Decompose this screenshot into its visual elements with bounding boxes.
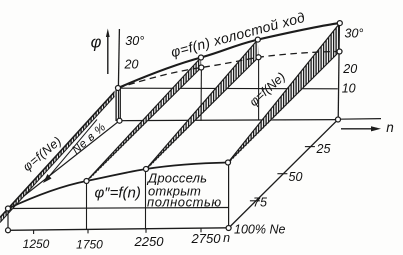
node axis bottom-left <box>6 228 11 233</box>
right scale line <box>338 23 339 119</box>
n axis bottom <box>8 228 229 231</box>
tick 2750 <box>200 228 202 232</box>
node full-throttle right <box>226 160 231 165</box>
strip B wedge (phi=f(Ne) wall at n=2250) <box>87 57 202 182</box>
strip D wedge <box>228 23 340 163</box>
svg-text:полностью: полностью <box>147 195 222 210</box>
svg-text:n: n <box>386 120 394 135</box>
Ne axis tick 25 <box>305 146 315 148</box>
tick 1750 <box>87 229 89 233</box>
node idle n=2250 <box>199 55 204 60</box>
left scale line <box>118 29 119 87</box>
node full-throttle 1750 <box>84 179 89 184</box>
svg-text:1250: 1250 <box>23 237 50 251</box>
Ne axis tick 50 <box>277 173 287 175</box>
svg-text:2250: 2250 <box>134 234 165 249</box>
svg-text:φ: φ <box>91 34 102 52</box>
svg-text:10: 10 <box>342 82 356 96</box>
tick 1250 <box>33 230 35 234</box>
Ne percent annotation arrow <box>46 120 97 181</box>
gridline 10deg back plane <box>118 87 338 90</box>
Ne axis <box>229 120 338 229</box>
node dashed end <box>337 49 342 54</box>
node idle curve start <box>116 86 121 91</box>
svg-text:30°: 30° <box>125 34 144 48</box>
svg-text:1750: 1750 <box>76 238 103 252</box>
vertical from dashed circle n=2750 to floor <box>258 58 260 120</box>
floor front edge <box>8 208 229 209</box>
svg-text:2750: 2750 <box>191 231 222 246</box>
svg-text:100% Ne: 100% Ne <box>234 223 285 237</box>
wall left band bottom edge <box>0 93 118 223</box>
vertical from dashed circle n=2250 to floor <box>200 68 202 121</box>
node circles <box>6 21 343 233</box>
wall left end face right boundary <box>119 88 121 121</box>
svg-text:20: 20 <box>124 58 139 72</box>
phi axis arrow <box>107 34 109 74</box>
wall left top edge (surface edge n=1250) <box>0 88 118 218</box>
n axis right arrow <box>341 128 375 130</box>
Ne axis tick 75 <box>250 200 260 202</box>
strip C wedge <box>146 39 259 169</box>
node idle n=2750 <box>255 37 260 42</box>
gridline 1750 <box>86 181 88 230</box>
node axis bottom-right <box>226 226 231 231</box>
svg-text:n: n <box>223 231 230 245</box>
node front-left corner <box>6 206 11 211</box>
phi axis arrowhead <box>106 29 110 38</box>
right dropline <box>228 163 230 228</box>
node floor back-left <box>117 118 122 123</box>
svg-text:φ″=f(n): φ″=f(n) <box>95 185 141 202</box>
svg-text:20: 20 <box>342 62 357 76</box>
dashed curve <box>118 52 340 89</box>
node right origin <box>336 117 341 122</box>
svg-text:30°: 30° <box>345 27 364 41</box>
node full-throttle 2250 <box>144 167 149 172</box>
floor left edge <box>8 121 120 209</box>
n axis right horizontal <box>338 118 381 121</box>
left axis vertical <box>7 209 9 231</box>
node dashed n=2250 <box>199 65 204 70</box>
wall left end face hatch <box>115 88 121 121</box>
svg-text:25: 25 <box>316 142 331 156</box>
svg-text:75: 75 <box>253 196 267 210</box>
tick 2250 <box>145 229 147 233</box>
full throttle curve phi''=f(n) <box>8 163 228 209</box>
floor back edge <box>120 120 339 121</box>
idle curve phi=f(n) <box>118 23 340 88</box>
wall left hatched band <box>0 88 118 223</box>
node dashed n=2750 <box>256 55 261 60</box>
node right top 30deg <box>337 21 342 26</box>
gridline 2250 <box>145 169 147 229</box>
svg-text:50: 50 <box>289 170 303 184</box>
